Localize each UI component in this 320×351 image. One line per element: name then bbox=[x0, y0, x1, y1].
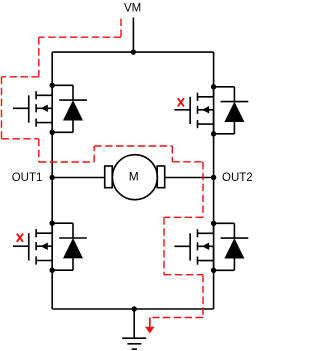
svg-text:M: M bbox=[129, 170, 139, 184]
svg-text:VM: VM bbox=[124, 2, 141, 14]
svg-text:OUT1: OUT1 bbox=[12, 172, 43, 184]
svg-text:OUT2: OUT2 bbox=[222, 172, 253, 184]
